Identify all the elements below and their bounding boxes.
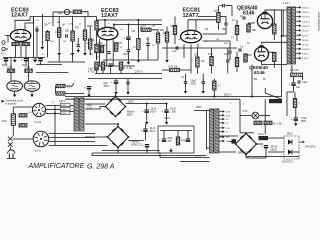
ground G0 [41,45,45,50]
ground G18 [165,58,169,63]
svg-text:25K: 25K [222,29,227,31]
wire g V5 [246,54,252,55]
arrow note [2,100,5,103]
wire T2 to B1 [85,103,106,105]
wire top rail stage3 [198,16,226,18]
wire R3 to stage2 [82,12,88,17]
resistor R36 [176,137,179,145]
capacitor C16 [226,60,229,62]
transformer T3 primary [210,109,214,153]
wire R21 dn [236,35,238,42]
wire sw to so2 [13,138,34,140]
wire s2c2 [110,68,112,74]
capacitor C40 [84,86,91,90]
arrow 24V out [300,141,305,144]
svg-text:270 V: 270 V [135,69,143,73]
wire so2 c [49,141,95,143]
capacitor C21 1uF [289,82,296,86]
ground G8 [184,89,188,94]
wire harness bot1 [92,155,207,157]
wire B+ bus lower [65,98,240,100]
resistor R15 [156,33,159,43]
resistor R26 [213,81,216,90]
resistor R13 [137,39,140,50]
resistor R11b [100,45,103,53]
wire R9 up [10,58,12,69]
wire C13 r [225,5,232,7]
wire s3 bus 48 [162,47,237,49]
svg-text:32 μF: 32 μF [150,128,157,130]
wire c21 up [293,77,295,83]
svg-text:1.5K: 1.5K [68,24,73,26]
tap output 5 [296,24,302,27]
wire to B2 [85,136,108,138]
svg-text:+: + [21,58,23,62]
wire B+ vertical b [282,10,284,36]
svg-text:B250: B250 [127,115,133,117]
tube V2 ECC83 [97,27,117,39]
tap output 12 [296,57,302,60]
svg-text:6.3V: 6.3V [243,110,248,113]
wire b3 bot [246,157,266,159]
wire R13 up [137,20,139,39]
capacitor C26 [141,128,148,132]
tap T3 3 [219,118,225,121]
ground G40 [87,93,91,98]
capacitor C2 [66,34,68,37]
wire T2 B1 in [85,107,106,110]
svg-text:47K: 47K [75,28,80,30]
svg-text:6.8K: 6.8K [172,51,177,53]
junction so1d [54,113,56,115]
svg-text:FU 1A: FU 1A [35,121,42,124]
capacitor C18 [202,82,205,84]
wire R15 dn [157,43,159,60]
svg-text:62 Ω 7: 62 Ω 7 [302,35,309,37]
resistor R14 [141,28,151,31]
capacitor C1 coupling [64,9,69,14]
tap T3 8 [219,140,225,143]
resistor R23 [170,68,180,71]
svg-text:6146: 6146 [254,70,265,76]
wire B1 right [126,103,147,105]
resistor R12 [95,62,98,70]
wire plate rail s2 a [105,19,162,21]
ground GC4 [13,58,17,63]
svg-text:+: + [291,117,293,121]
resistor R6 [83,30,86,40]
wire fb r [302,75,304,80]
wire input v [7,36,9,43]
capacitor C22 14uF [298,80,300,83]
svg-text:125 Ω 4: 125 Ω 4 [302,21,311,23]
svg-text:6.3V: 6.3V [226,112,231,114]
junction bus5 [251,96,253,98]
wire R23 r [180,70,192,74]
wire V5 plate [262,61,288,65]
svg-text:12V1(T2): 12V1(T2) [282,160,293,163]
wire f1 dn [12,125,14,136]
transformer T1 secondary [292,7,296,64]
capacitor C13 [223,4,225,7]
wire b3 top [245,132,247,135]
wire sel T2 b [70,111,76,113]
tap output 10 [296,48,302,51]
capacitor C29 [183,138,190,142]
wire C13 l [220,5,222,7]
wire f1 top [13,106,33,108]
svg-text:83 Ω 6: 83 Ω 6 [302,31,309,33]
wire box c29 [187,131,189,140]
socket SO1 [32,103,45,116]
svg-text:50K: 50K [50,41,54,43]
tap output 6 [296,29,302,32]
svg-text:Premendo il puls.: Premendo il puls. [6,99,24,102]
ground G11 [145,120,149,125]
wire T1 to fb l [291,65,293,73]
ground G7 [114,90,118,95]
wire c18 dn [202,83,204,89]
resistor R27 [247,24,250,32]
wire col x72 [72,17,74,32]
wire R10 up [28,58,30,69]
svg-text:25K: 25K [224,43,228,45]
wire V2 plate up [113,25,115,29]
wire C1 to R3 [70,11,73,13]
wire b2 top stub [117,124,119,127]
svg-text:0.47: 0.47 [25,66,30,69]
wire b3 out right [246,156,299,158]
wire b3 r1 [257,143,264,145]
switch S1 [8,137,13,147]
transformer T1 primary [287,7,291,64]
svg-text:1μF: 1μF [58,11,63,15]
resistor R19 [173,26,176,35]
svg-text:P.U.: P.U. [1,53,6,56]
wire V3 plate up b [187,20,189,31]
wire V3 pin b [190,45,192,71]
capacitor C12 [176,46,178,49]
wire plate rail s2 b [114,24,162,26]
wire gnd link stub2 [72,55,74,62]
wire c25 dn [166,113,168,120]
svg-text:+: + [1,58,3,62]
resistor R33b [264,121,272,124]
wire B+ vertical a [281,10,283,97]
wire R25 up [211,48,213,57]
wire R7 dn [89,49,91,55]
block connector dark [269,99,282,103]
fuse F1 [11,114,15,126]
svg-text:6.3V: 6.3V [226,128,231,130]
wire V1 plate up b [25,23,34,30]
transformer T2 primary [74,98,78,131]
wire c18 up [202,74,204,82]
wire r40 l [55,86,57,94]
svg-text:24V: 24V [226,137,230,139]
svg-text:790 Ω: 790 Ω [164,118,170,120]
svg-text:25μF: 25μF [123,54,129,56]
resistor R3 top [73,10,82,13]
resistor R9 [7,69,15,72]
resistor R11c [115,43,118,52]
wire r40 r [65,83,74,86]
svg-text:+: + [84,86,86,90]
wire splitter lower [203,41,231,50]
wire C2 l [36,64,62,66]
plug mains [7,150,16,159]
wire T3 r2 [219,151,236,153]
paper background [0,0,320,170]
capacitor C30 [261,145,268,149]
tap output 4 [296,20,302,23]
ground G13b [137,58,141,63]
resistor R7 [89,39,92,49]
svg-text:+: + [142,144,144,148]
wire r26 dn [213,90,215,97]
wire C1 tap [52,12,54,17]
tap output 11 [296,52,302,55]
wire col x59 [58,17,60,28]
svg-text:12AX7: 12AX7 [11,13,28,19]
wire R14 r [151,30,158,33]
wire R21 up [236,20,238,26]
wire input to grid [5,35,10,37]
bridge B1 [105,96,127,118]
svg-text:B.AT.U: B.AT.U [195,155,202,158]
svg-text:321/ 2.5: 321/ 2.5 [258,134,267,136]
svg-text:50K: 50K [160,30,165,32]
wire mid bus lower [88,78,162,80]
svg-text:47K: 47K [118,43,123,45]
capacitor C19 [242,17,245,19]
ground G4 [83,51,87,56]
tap T3 2 [219,114,225,117]
svg-text:G. 298 A: G. 298 A [87,163,115,170]
capacitor C15 [228,51,231,53]
capacitor C17 [184,82,187,84]
svg-text:0.47: 0.47 [8,66,13,69]
wire V1 pin1 [15,41,17,42]
capacitor C4 50uF [1,58,8,62]
wire C11 dn [115,84,117,90]
wire col x37 [36,26,38,58]
svg-text:(38.8): (38.8) [271,150,277,152]
wire V1 pin2 [25,41,27,42]
svg-text:1K: 1K [90,54,93,56]
resistor R33 [254,121,262,124]
wire C16 up [227,48,229,60]
tap output 9 [296,43,302,46]
ground G3 [76,48,80,53]
wire C15 dn [229,53,231,60]
wire R1 dn [15,46,17,58]
wire box bus [160,130,192,132]
svg-text:50μF: 50μF [168,138,174,140]
resistor R28 [244,54,247,62]
svg-text:FUS: FUS [2,120,7,123]
svg-text:250K: 250K [141,26,147,28]
tube V4 6146 [257,13,272,28]
wire b3 l [229,141,236,143]
svg-text:16 Ω 10: 16 Ω 10 [302,49,311,51]
capacitor C14 [224,23,227,25]
svg-text:+: + [111,80,113,84]
wire V2 pin a [98,39,100,66]
wire so2 a [49,133,95,135]
ground G12 [165,120,169,125]
svg-text:290 V.: 290 V. [224,92,232,96]
wire R23 l [162,69,170,71]
wire r26 up [213,79,215,82]
wire so2 b [49,137,95,139]
svg-text:140 V: 140 V [59,100,66,103]
wire mid bus 270V [95,73,162,75]
svg-text:B30 C800: B30 C800 [238,153,249,155]
wire R9 dn [10,73,12,81]
capacitor C5 50uF [21,58,28,62]
tap output 2 [296,11,302,14]
wire misc b [97,19,106,21]
wire B2 right [129,140,145,142]
resistor R2 cathode [22,42,29,45]
wire V4 plate [265,10,287,13]
svg-text:8K: 8K [263,79,266,81]
wire R30 up [273,51,275,53]
wire x265 dn [264,99,266,133]
wire gnd link stub [58,55,60,62]
svg-text:8 Ω 11: 8 Ω 11 [302,54,309,56]
wire b3 b [245,155,247,159]
junction b2top [117,123,119,125]
tap T3 1 [219,110,225,113]
wire R12 dn [96,70,98,74]
resistor R16 [101,62,104,70]
capacitor C6b [127,50,130,52]
svg-text:0.5M: 0.5M [170,26,175,28]
wire b2 feed [85,123,118,125]
anode cap V5 [258,45,264,47]
svg-text:1M: 1M [62,25,65,27]
socket SO2 [33,131,49,147]
ground G5 [13,93,17,98]
capacitor C27 [142,144,149,148]
wire R22 up [236,52,238,58]
wire V3 pin c [197,44,199,48]
wire top stub a [41,14,43,17]
svg-text:4.7KΩ: 4.7KΩ [88,71,95,74]
junction v2b [113,24,115,26]
ground G10 [294,122,298,127]
wire c30 dn [265,149,267,159]
svg-text:16 μF: 16 μF [151,109,158,111]
svg-text:1 1/2 t: 1 1/2 t [283,2,290,5]
ground G2 [71,51,75,56]
wire C2 r [36,72,68,74]
tube V3 ECC81 [181,30,202,42]
svg-text:800 μF: 800 μF [271,147,279,149]
svg-text:110V: 110V [61,113,66,115]
svg-text:50 Ω 8: 50 Ω 8 [302,40,309,42]
capacitor C7 [146,44,149,46]
wire bot mid link [240,132,254,134]
wire R24 dn [196,67,198,74]
wire c24 dn [146,113,148,120]
wire pin3 dn [20,42,22,58]
wire c26 dn [145,132,147,141]
wire c17 dn [185,83,187,89]
wire harness bot2 [102,150,160,152]
svg-text:25V: 25V [168,141,173,143]
tap T3 7 [219,136,225,139]
resistor R31 feedback [291,73,303,76]
connector input jacks [2,41,5,51]
wire c21 dn [293,86,295,92]
wire c40 dn [88,90,90,93]
wire C13 r dn [231,6,233,16]
capacitor C23 [291,117,298,121]
wire B1 out top [115,94,117,97]
wire T3 bot2 [160,157,210,159]
scan speckle noise [0,0,316,170]
tap output 1 [296,6,302,9]
wire lamp l [240,115,252,117]
wire R6 dn [84,40,86,51]
svg-text:+: + [106,63,108,67]
wire gnd bus stage1 [3,57,45,59]
svg-text:25K: 25K [86,43,90,45]
svg-text:14μF: 14μF [302,81,308,84]
resistor R21 [235,26,238,35]
tap T3 4 [219,122,225,125]
wire C3 up [77,38,79,45]
svg-text:+: + [162,109,164,113]
wire CT to B+ [282,35,287,37]
ground GC6 [127,60,131,65]
svg-text:8.2K: 8.2K [208,53,213,56]
wire C11c dn [127,84,129,90]
svg-text:+: + [159,138,161,142]
capacitor C5b 25uF [36,58,43,62]
wire R18 up [166,27,168,33]
resistor R24 [196,57,199,67]
capacitor C20 [238,49,241,51]
wire V1 plate up a [15,17,30,30]
wire R30 dn [273,62,275,69]
tap output 7 [296,34,302,37]
svg-text:1M: 1M [216,39,219,41]
tap output 8 [296,38,302,41]
wire C6 dn [127,52,129,60]
svg-text:6.3 V: 6.3 V [67,86,73,88]
resistor R40 [56,84,65,87]
wire top rail stage1 [30,16,97,18]
resistor R4 [58,28,61,38]
svg-text:+: + [141,128,143,132]
wire C11c up [127,79,129,83]
svg-text:0.5M: 0.5M [55,32,60,34]
ground G13 [169,148,173,153]
capacitor C3 [77,45,80,47]
resistor R8 [95,21,98,30]
resistor R5 [71,31,74,41]
svg-text:24V1(T2): 24V1(T2) [305,145,316,148]
resistor R22 [235,58,238,67]
wire R14 l [140,27,142,30]
wire R19 up [174,17,176,26]
wire c25 up [166,104,168,111]
svg-text:1M: 1M [205,29,208,31]
